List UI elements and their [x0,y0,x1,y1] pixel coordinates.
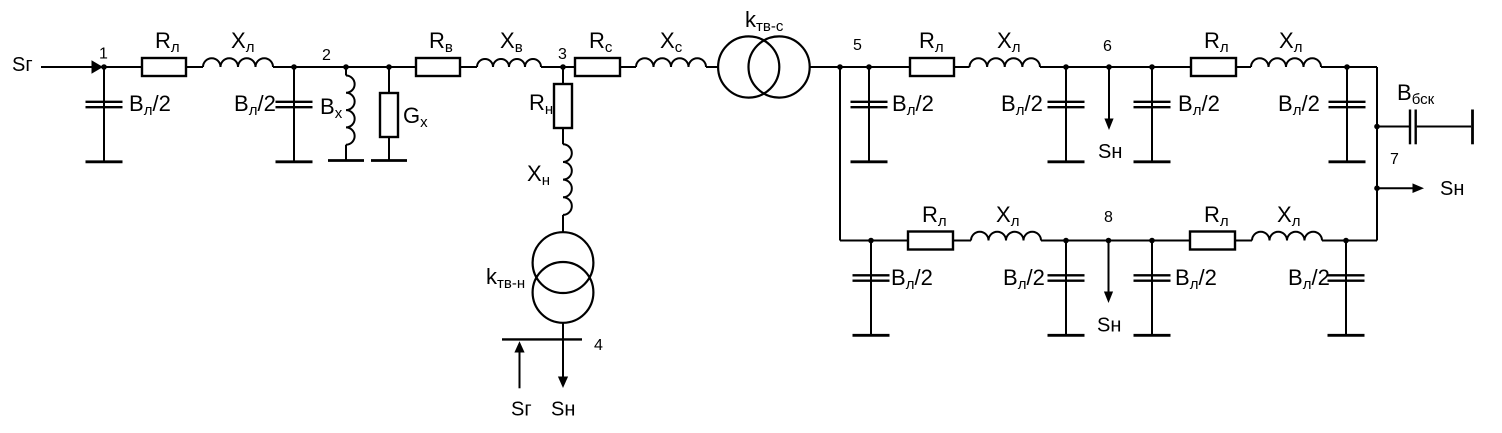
ground [1328,334,1365,337]
arrowhead at node 1 [92,60,104,73]
wire left riser [839,67,841,241]
svg-text:kтв-с: kтв-с [745,7,784,35]
capacitor Bл/2 after node 6 [1151,67,1153,162]
arrow Sг into node 4 [519,352,521,388]
transformer kтв-н [533,232,594,293]
svg-text:Xл: Xл [231,28,254,56]
inductor Xв [477,59,541,67]
node 4 busbar [502,338,582,340]
wire [1066,240,1109,242]
wire [1236,66,1251,68]
svg-text:Sн: Sн [1098,141,1122,163]
svg-text:7: 7 [1390,151,1399,168]
svg-text:kтв-н: kтв-н [486,264,525,292]
svg-text:Bл/2: Bл/2 [1001,91,1043,119]
wire [1322,240,1346,242]
ground [851,160,888,163]
svg-text:2: 2 [322,47,331,64]
svg-text:Bл/2: Bл/2 [1003,265,1045,293]
node 3 [560,64,566,70]
resistor Rл (line 3 top) [1191,58,1236,76]
svg-text:Bл/2: Bл/2 [234,91,276,119]
transformer kтв-с [718,36,779,97]
arrowhead Sн down at node 4 [558,377,568,389]
svg-text:Bл/2: Bл/2 [1175,265,1217,293]
wire [706,66,718,68]
junction [386,64,392,70]
resistor Gх [388,67,390,93]
svg-text:Bбск: Bбск [1397,80,1435,108]
svg-text:Bл/2: Bл/2 [1278,91,1320,119]
svg-text:Xл: Xл [997,28,1020,56]
node 2 junction [291,64,297,70]
svg-text:Xн: Xн [527,161,550,189]
wire [1321,66,1347,68]
wire [1109,240,1153,242]
svg-text:Bх: Bх [320,94,343,122]
inductor Bх [345,67,347,76]
junction [1149,64,1155,70]
wire [840,66,869,68]
ground [328,159,364,162]
capacitor Bл/2 before node 6 [1065,67,1067,162]
svg-text:Xл: Xл [1277,202,1300,230]
inductor Xл (line 2 top) [970,58,1040,67]
resistor Rл (line 2 bottom) [908,232,953,250]
svg-text:Sг: Sг [12,54,33,76]
svg-text:Bл/2: Bл/2 [1288,265,1330,293]
ground [853,334,890,337]
junction [1374,185,1380,191]
wire [104,66,142,68]
junction [1343,238,1349,244]
ground [1134,334,1171,337]
ground [1329,160,1366,163]
ground [371,159,407,162]
svg-text:Rл: Rл [155,28,180,56]
wire [41,66,92,68]
load arrow Sн at node 8 [1108,241,1110,293]
wire [1346,240,1377,242]
svg-text:Bл/2: Bл/2 [891,265,933,293]
wire [840,240,871,242]
inductor Xс [636,58,706,67]
node 1 [101,64,107,70]
wire [346,66,389,68]
wire [810,66,840,68]
capacitor Bл/2 before node 8 [1065,241,1067,336]
svg-text:8: 8 [1104,209,1113,226]
wire [389,66,416,68]
ground [1048,160,1085,163]
wire [1109,66,1152,68]
svg-text:5: 5 [853,37,862,54]
svg-text:3: 3 [558,46,567,63]
resistor Rв [416,58,460,76]
wire [1152,240,1190,242]
node 6 [1106,64,1112,70]
wire [1347,66,1377,68]
wire [1152,66,1191,68]
svg-text:Gх: Gх [403,103,428,131]
svg-text:Rс: Rс [589,28,613,56]
junction [866,64,872,70]
svg-text:Xс: Xс [660,28,683,56]
svg-text:4: 4 [594,337,603,354]
junction [1149,238,1155,244]
capacitor Bл/2 at node 2 [293,67,295,162]
capacitor Bл/2 at node 1 [103,67,105,162]
svg-text:Rв: Rв [429,28,453,56]
ground [1048,334,1085,337]
wire [1040,66,1066,68]
terminal bar Bбск [1471,110,1474,145]
svg-text:Bл/2: Bл/2 [1178,91,1220,119]
inductor Xл (line 2 bottom) [971,232,1041,241]
junction [1344,64,1350,70]
capacitor Bл/2 bottom left [870,241,872,336]
svg-text:Xв: Xв [500,28,523,56]
wire [1235,240,1252,242]
junction [868,238,874,244]
junction [343,64,349,70]
resistor Rл (line 3 bottom) [1190,232,1235,250]
inductor Xл (line 1) [203,58,273,67]
ground [276,160,313,163]
node 8 [1106,238,1112,244]
svg-text:Rл: Rл [1204,202,1229,230]
capacitor Bл/2 bottom right [1345,241,1347,336]
resistor Rл (line 2 top) [910,58,954,76]
wire [460,66,477,68]
resistor Rл (line 1) [142,58,186,76]
wire [562,215,564,232]
node 7 junction [1374,124,1380,130]
wire [273,66,294,68]
wire [1377,126,1409,128]
ground [1134,160,1171,163]
inductor Xл (line 3 bottom) [1252,232,1322,241]
junction [1063,238,1069,244]
wire [954,66,970,68]
wire [562,128,564,144]
svg-text:Xл: Xл [1279,28,1302,56]
wire [871,240,908,242]
wire [953,240,971,242]
capacitor Bл/2 before node 7 [1346,67,1348,162]
svg-text:6: 6 [1103,38,1112,55]
svg-text:Bл/2: Bл/2 [129,91,171,119]
wire [869,66,910,68]
svg-text:Rл: Rл [919,28,944,56]
ground [86,160,123,163]
svg-text:Sн: Sн [551,399,575,421]
wire [563,66,575,68]
wire [1041,240,1066,242]
capacitor Bл/2 at node 5 [868,67,870,162]
wire [1066,66,1109,68]
inductor Xл (line 3 top) [1251,58,1321,67]
svg-text:Rн: Rн [529,90,553,118]
wire [620,66,636,68]
svg-text:Rл: Rл [922,202,947,230]
wire [541,66,563,68]
load arrow Sн at node 6 [1108,67,1110,119]
capacitor Bбск [1409,110,1411,145]
svg-text:Rл: Rл [1204,28,1229,56]
svg-text:Sн: Sн [1440,178,1464,200]
svg-text:Bл/2: Bл/2 [892,91,934,119]
svg-text:Sн: Sн [1097,315,1121,337]
wire [294,66,346,68]
capacitor Bл/2 after node 8 [1151,241,1153,336]
wire [186,66,203,68]
load arrow Sн at node 7 [1377,187,1413,189]
node 5 junction [837,64,843,70]
wire right riser [1376,67,1378,241]
svg-text:Xл: Xл [996,202,1019,230]
resistor Rс [575,58,620,76]
inductor Xн [563,144,572,215]
svg-text:Sг: Sг [511,399,532,421]
resistor Rн [562,67,564,84]
junction [1063,64,1069,70]
svg-text:1: 1 [99,46,108,63]
wire to node 4 [562,323,564,377]
